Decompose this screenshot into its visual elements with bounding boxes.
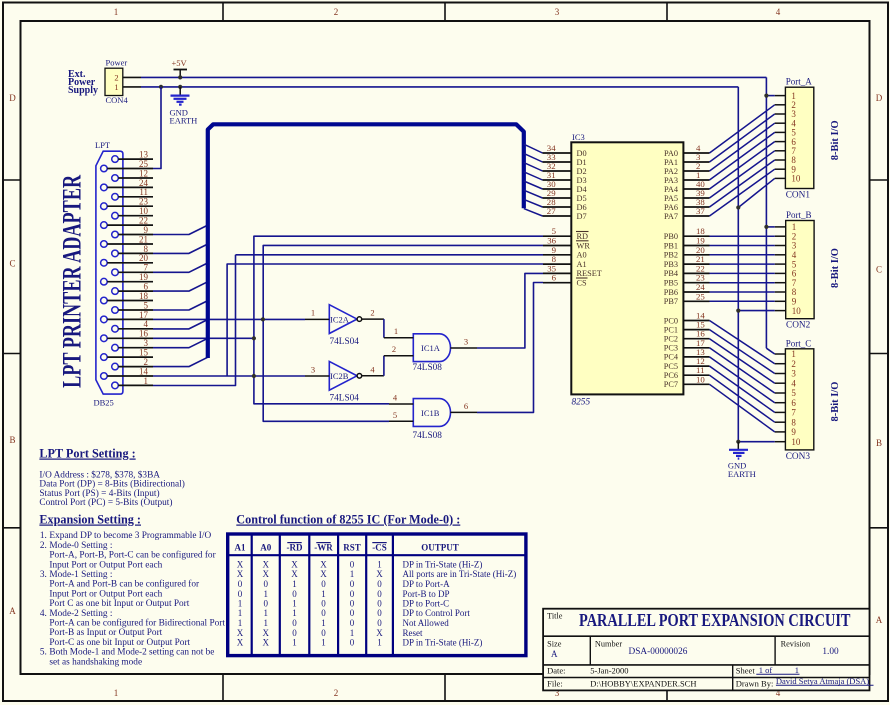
IC3 pin PB0 (18) <box>683 235 709 237</box>
svg-text:0: 0 <box>292 628 297 638</box>
svg-text:1: 1 <box>264 608 269 618</box>
wire PB6 to CON2 pin8 <box>710 291 775 293</box>
DB25 pin 2 <box>112 363 119 370</box>
IC3 pin D5 (29) <box>543 197 572 199</box>
svg-text:1: 1 <box>114 82 118 92</box>
wire bus to IC3 D5 <box>524 190 543 198</box>
svg-text:1: 1 <box>292 599 297 609</box>
wire PA4 to CON1 pin6 <box>710 142 775 189</box>
IC3 pin D4 (30) <box>543 188 572 190</box>
CON3 pin 10 <box>775 441 786 443</box>
wire bus to IC3 D0 <box>524 144 543 153</box>
CON1 pin 7 <box>775 150 786 152</box>
wire DB25 pin 6 to data bus <box>153 282 208 291</box>
svg-text:-WR: -WR <box>314 543 333 553</box>
connector CON2 <box>786 221 814 319</box>
wire DB25 pin16 to RD net <box>153 337 254 339</box>
title block frame <box>543 609 869 691</box>
CON2 pin 4 <box>775 254 786 256</box>
svg-text:27: 27 <box>547 206 556 216</box>
IC3 pin PA6 (38) <box>683 206 709 208</box>
junction CON2 pin1 <box>764 225 768 229</box>
svg-text:Sheet: Sheet <box>736 665 756 675</box>
svg-text:X: X <box>263 560 270 570</box>
svg-text:D:\HOBBY\EXPANDER.SCH: D:\HOBBY\EXPANDER.SCH <box>590 678 696 688</box>
svg-text:PA5: PA5 <box>664 194 678 203</box>
svg-text:X: X <box>237 638 244 648</box>
svg-text:2: 2 <box>392 344 396 354</box>
svg-text:0: 0 <box>321 608 326 618</box>
svg-text:9: 9 <box>791 427 796 437</box>
svg-text:Port-A, Port-B, Port-C can be: Port-A, Port-B, Port-C can be configured… <box>49 550 216 561</box>
svg-text:IC2A: IC2A <box>330 315 350 325</box>
svg-text:PA4: PA4 <box>664 185 679 194</box>
wire DB25 pin 9 to data bus <box>153 225 208 234</box>
IC3 pin PC5 (12) <box>683 365 709 367</box>
svg-text:PA7: PA7 <box>664 212 678 221</box>
svg-text:PB3: PB3 <box>664 260 678 269</box>
junction RD-pin16 <box>252 336 256 340</box>
DB25 pin 19 <box>101 278 108 285</box>
svg-text:7: 7 <box>791 408 796 418</box>
svg-text:X: X <box>376 628 383 638</box>
svg-text:0: 0 <box>264 599 269 609</box>
IC3 pin PB1 (19) <box>683 245 709 247</box>
svg-text:PC5: PC5 <box>664 362 678 371</box>
IC3 pin PA5 (39) <box>683 197 709 199</box>
svg-text:2: 2 <box>370 308 374 318</box>
svg-text:Port-B to DP: Port-B to DP <box>403 589 450 599</box>
svg-text:+5V: +5V <box>172 58 188 68</box>
DB25 pin 11 <box>112 194 119 201</box>
wire DB25 pin 2 to data bus <box>153 357 208 366</box>
svg-text:A1: A1 <box>577 260 587 269</box>
svg-text:74LS04: 74LS04 <box>330 337 360 347</box>
svg-text:9: 9 <box>144 225 149 235</box>
IC3 pin PC6 (11) <box>683 374 709 376</box>
svg-text:1: 1 <box>350 569 355 579</box>
svg-text:IC1B: IC1B <box>421 408 440 418</box>
wire WR net vertical <box>263 245 543 421</box>
DB25 pin 6 <box>112 288 119 295</box>
svg-text:1.00: 1.00 <box>822 647 839 657</box>
svg-text:0: 0 <box>321 628 326 638</box>
DB25 pin 8 <box>112 250 119 257</box>
svg-text:2: 2 <box>334 7 339 17</box>
IC3 pin D6 (28) <box>543 206 572 208</box>
wire IC2A out to IC1A in1 <box>383 319 385 338</box>
CON4 pin 1 stub <box>123 86 141 88</box>
svg-text:A0: A0 <box>577 251 587 260</box>
wire bus to IC3 D1 <box>524 153 543 162</box>
ground GND EARTH top <box>179 87 181 95</box>
IC3 pin WR (36) <box>543 245 571 247</box>
wire PB1 to CON2 pin3 <box>710 245 775 247</box>
svg-text:0: 0 <box>350 638 355 648</box>
svg-text:A: A <box>876 615 883 625</box>
svg-text:X: X <box>320 569 327 579</box>
wire CS from IC1B output <box>477 283 543 413</box>
DB25 pin 18 <box>101 297 108 304</box>
DB25 pin 13 <box>112 156 119 163</box>
DB25 pin 12 <box>112 175 119 182</box>
junction CON3 pin10 GND <box>736 440 740 444</box>
svg-text:0: 0 <box>350 618 355 628</box>
svg-text:3.: 3. <box>40 570 47 580</box>
junction CON1 pin10 GND <box>736 205 740 209</box>
svg-text:8255: 8255 <box>572 398 591 408</box>
DB25 pin 20 <box>101 260 108 267</box>
wire PA2 to CON1 pin4 <box>710 123 775 171</box>
svg-text:D4: D4 <box>577 185 588 194</box>
svg-text:0: 0 <box>350 608 355 618</box>
IC3 pin PA1 (3) <box>683 161 709 163</box>
IC3 pin D0 (34) <box>543 152 572 154</box>
wire PA5 to CON1 pin7 <box>710 151 775 198</box>
CON1 pin 4 <box>775 122 786 124</box>
svg-text:RST: RST <box>343 543 361 553</box>
CON1 pin 9 <box>775 168 786 170</box>
wire A1 net <box>227 264 543 376</box>
svg-text:set as handshaking mode: set as handshaking mode <box>49 657 142 667</box>
svg-text:20: 20 <box>139 253 149 263</box>
CON2 pin 6 <box>775 272 786 274</box>
svg-text:CS: CS <box>577 279 588 288</box>
wire DB25 pin17 to IC2A input (net SELECT) <box>153 318 305 320</box>
svg-text:1: 1 <box>264 589 269 599</box>
svg-text:DSA-00000026: DSA-00000026 <box>629 647 688 657</box>
wire DB25 pin 4 to data bus <box>153 320 208 329</box>
svg-text:Port_A: Port_A <box>786 77 813 87</box>
svg-text:David Setya Atmaja (DSA): David Setya Atmaja (DSA) <box>776 676 869 686</box>
svg-text:PC4: PC4 <box>664 353 679 362</box>
svg-text:2.: 2. <box>40 541 47 551</box>
CON3 pin 7 <box>775 411 786 413</box>
DB25 pin 7 <box>112 269 119 276</box>
svg-text:PA6: PA6 <box>664 203 678 212</box>
svg-text:0: 0 <box>377 579 382 589</box>
IC3 pin PA4 (40) <box>683 188 709 190</box>
svg-text:LPT: LPT <box>95 140 111 150</box>
IC3 pin RESET (35) <box>543 272 571 274</box>
IC3 pin PA0 (4) <box>683 152 709 154</box>
svg-text:4.: 4. <box>40 609 47 619</box>
junction pin25 riser <box>159 85 163 89</box>
svg-text:10: 10 <box>791 437 801 447</box>
svg-text:1: 1 <box>238 599 243 609</box>
IC3 pin PB5 (23) <box>683 282 709 284</box>
svg-text:CON4: CON4 <box>106 95 129 105</box>
svg-text:Date:: Date: <box>547 665 565 675</box>
svg-text:Control Port (PC) = 5-Bits (Ou: Control Port (PC) = 5-Bits (Output) <box>39 497 172 508</box>
svg-text:74LS08: 74LS08 <box>413 363 443 373</box>
svg-text:DP to Port-A: DP to Port-A <box>403 579 451 589</box>
wire CON2 pin10 to GND rail <box>738 310 774 312</box>
junction GND stem <box>178 85 182 89</box>
svg-text:PB4: PB4 <box>664 269 679 278</box>
IC3 pin PC4 (13) <box>683 356 709 358</box>
svg-text:IC3: IC3 <box>572 132 585 142</box>
svg-text:D: D <box>9 93 16 103</box>
DB25 pin 9 <box>112 231 119 238</box>
svg-text:Reset: Reset <box>403 628 423 638</box>
svg-text:1: 1 <box>321 589 326 599</box>
IC2A input pin 1 <box>305 318 329 320</box>
wire IC2B out to IC1A in2 <box>383 356 385 376</box>
svg-text:PA1: PA1 <box>664 158 678 167</box>
CON3 pin 5 <box>775 392 786 394</box>
junction RD-pin14 <box>252 374 256 378</box>
wire +5V to CON3 pin1 <box>766 348 774 354</box>
svg-text:PC6: PC6 <box>664 371 678 380</box>
CON2 pin 9 <box>775 300 786 302</box>
svg-text:LPT PRINTER ADAPTER: LPT PRINTER ADAPTER <box>58 175 87 388</box>
svg-text:Power: Power <box>106 58 128 68</box>
svg-text:8: 8 <box>791 417 796 427</box>
IC3 pin D7 (27) <box>543 215 572 217</box>
wire bus to IC3 D7 <box>524 209 543 216</box>
wire PA1 to CON1 pin3 <box>710 114 775 162</box>
svg-text:PA3: PA3 <box>664 176 678 185</box>
svg-text:0: 0 <box>292 618 297 628</box>
junction CON1 pin1 <box>764 94 768 98</box>
svg-text:Both Mode-1 and Mode-2 setting: Both Mode-1 and Mode-2 setting can not b… <box>49 648 214 658</box>
svg-text:IC2B: IC2B <box>330 371 349 381</box>
IC2B input pin 3 <box>305 375 329 377</box>
svg-text:PARALLEL PORT EXPANSION CIRCUI: PARALLEL PORT EXPANSION CIRCUIT <box>579 610 851 630</box>
inverter IC2B <box>329 361 357 390</box>
svg-text:D7: D7 <box>577 212 587 221</box>
svg-text:DP in Tri-State (Hi-Z): DP in Tri-State (Hi-Z) <box>403 560 483 570</box>
svg-text:X: X <box>376 569 383 579</box>
svg-text:1: 1 <box>114 7 119 17</box>
wire GND rail <box>141 86 738 88</box>
svg-text:RESET: RESET <box>577 269 602 278</box>
svg-text:25: 25 <box>696 291 705 301</box>
svg-text:X: X <box>237 560 244 570</box>
svg-text:1: 1 <box>795 665 799 675</box>
border zone ticks <box>222 3 224 21</box>
svg-text:Port C as one bit Input or Out: Port C as one bit Input or Output Port <box>49 599 189 609</box>
DB25 pin 21 <box>101 241 108 248</box>
svg-text:OUTPUT: OUTPUT <box>421 543 459 553</box>
svg-text:X: X <box>263 569 270 579</box>
wire DB25 pin 7 to data bus <box>153 263 208 272</box>
svg-text:74LS04: 74LS04 <box>330 394 360 404</box>
svg-text:1: 1 <box>292 608 297 618</box>
svg-text:0: 0 <box>377 608 382 618</box>
DB25 pin 17 <box>101 316 108 323</box>
IC3 pin D3 (31) <box>543 179 572 181</box>
power +5V symbol <box>179 70 181 78</box>
wire PC4 to CON3 pin6 <box>710 357 775 403</box>
svg-text:1 of: 1 of <box>759 665 773 675</box>
svg-text:Port-B as Input or Output Port: Port-B as Input or Output Port <box>49 628 162 638</box>
svg-text:DP in Tri-State (Hi-Z): DP in Tri-State (Hi-Z) <box>403 638 483 648</box>
svg-text:6: 6 <box>552 273 557 283</box>
svg-text:Control function of 8255 IC (F: Control function of 8255 IC (For Mode-0)… <box>236 513 460 527</box>
wire DB25 pin 8 to data bus <box>153 244 208 253</box>
svg-text:DB25: DB25 <box>94 398 114 408</box>
svg-text:A0: A0 <box>260 543 271 553</box>
svg-text:5.: 5. <box>40 648 47 658</box>
wire PC3 to CON3 pin5 <box>710 348 775 393</box>
CON3 pin 3 <box>775 373 786 375</box>
junction +5V stem <box>178 75 182 79</box>
CON3 pin 4 <box>775 382 786 384</box>
IC1B input pin 4 <box>389 403 413 405</box>
svg-text:B: B <box>876 438 882 448</box>
CON2 pin 10 <box>775 310 786 312</box>
svg-text:CON2: CON2 <box>786 321 811 331</box>
svg-text:0: 0 <box>264 579 269 589</box>
svg-text:X: X <box>237 628 244 638</box>
svg-text:Port-C as one bit Input or Out: Port-C as one bit Input or Output Port <box>49 638 190 648</box>
connector CON4 <box>105 68 123 95</box>
svg-text:0: 0 <box>350 599 355 609</box>
wire PA6 to CON1 pin8 <box>710 160 775 207</box>
IC3 pin D2 (32) <box>543 170 572 172</box>
svg-text:RD: RD <box>577 232 589 241</box>
svg-text:PC7: PC7 <box>664 380 678 389</box>
svg-text:PB7: PB7 <box>664 297 678 306</box>
wire PB4 to CON2 pin6 <box>710 272 775 274</box>
wire DB25 pin 3 to data bus <box>153 338 208 347</box>
svg-text:Mode-2 Setting :: Mode-2 Setting : <box>49 609 112 619</box>
svg-text:Not Allowed: Not Allowed <box>403 618 450 628</box>
wire CON1 pin10 to GND rail <box>738 178 774 207</box>
svg-text:X: X <box>320 560 327 570</box>
DB25 pin 1 <box>112 382 119 389</box>
DB25 pin 22 <box>101 222 108 229</box>
wire PC5 to CON3 pin7 <box>710 366 775 412</box>
IC3 pin D1 (33) <box>543 161 572 163</box>
wire bus to IC3 D6 <box>524 199 543 207</box>
svg-text:All ports are in Tri-State (Hi: All ports are in Tri-State (Hi-Z) <box>403 569 517 579</box>
CON1 pin 10 <box>775 177 786 179</box>
svg-text:Expansion Setting :: Expansion Setting : <box>39 513 141 527</box>
svg-text:11: 11 <box>139 187 148 197</box>
IC2A output pin 2 <box>362 318 384 320</box>
svg-text:CON1: CON1 <box>786 191 811 201</box>
IC3 pin A1 (8) <box>543 263 571 265</box>
connector CON3 <box>785 349 813 450</box>
wire PC0 to CON3 pin2 <box>710 321 775 364</box>
svg-text:4: 4 <box>791 378 796 388</box>
svg-text:D6: D6 <box>577 203 587 212</box>
IC3 pin PB6 (24) <box>683 291 709 293</box>
wire DB25 pin25 to GND rail <box>153 87 161 169</box>
IC3 pin CS (6) <box>543 282 571 284</box>
svg-text:4: 4 <box>776 7 781 17</box>
svg-text:Number: Number <box>595 639 622 648</box>
svg-text:4: 4 <box>144 319 149 329</box>
wire PA3 to CON1 pin5 <box>710 132 775 180</box>
svg-text:Port_C: Port_C <box>786 338 812 348</box>
svg-text:Mode-1 Setting :: Mode-1 Setting : <box>49 570 112 580</box>
svg-text:Input Port or Output Port each: Input Port or Output Port each <box>49 589 162 599</box>
wire bus to IC3 D3 <box>524 172 543 180</box>
DB25 pin 3 <box>112 344 119 351</box>
svg-text:WR: WR <box>577 241 591 250</box>
svg-text:3: 3 <box>464 337 468 347</box>
svg-text:18: 18 <box>139 291 149 301</box>
svg-text:PC2: PC2 <box>664 335 678 344</box>
IC3 pin PB2 (20) <box>683 254 709 256</box>
svg-text:2: 2 <box>334 688 339 698</box>
svg-text:1: 1 <box>144 376 149 386</box>
svg-text:1: 1 <box>321 638 326 648</box>
DB25 pin 4 <box>112 326 119 333</box>
svg-text:5: 5 <box>791 388 796 398</box>
bus data (thick) <box>208 124 524 358</box>
CON2 pin 3 <box>775 245 786 247</box>
svg-text:X: X <box>291 569 298 579</box>
svg-text:Expand DP to become 3 Programm: Expand DP to become 3 Programmable I/O <box>49 531 211 541</box>
IC3 pin PB7 (25) <box>683 300 709 302</box>
CON1 pin 8 <box>775 159 786 161</box>
svg-text:D5: D5 <box>577 194 587 203</box>
DB25 pin 14 <box>101 373 108 380</box>
connector DB25 shell <box>96 151 123 394</box>
IC3 pin PC2 (16) <box>683 338 709 340</box>
svg-text:PC3: PC3 <box>664 344 678 353</box>
svg-text:1: 1 <box>114 688 119 698</box>
IC3 pin PC3 (17) <box>683 347 709 349</box>
wire PB3 to CON2 pin5 <box>710 263 775 265</box>
wire PA0 to CON1 pin2 <box>710 105 775 153</box>
CON1 pin 1 <box>775 95 786 97</box>
DB25 pin 10 <box>112 212 119 219</box>
svg-text:X: X <box>263 628 270 638</box>
DB25 pin 16 <box>101 335 108 342</box>
DB25 pin 15 <box>101 354 108 361</box>
svg-text:10: 10 <box>696 374 705 384</box>
junction CON2 pin10 GND <box>736 309 740 313</box>
svg-text:D1: D1 <box>577 158 587 167</box>
IC1B input pin 5 <box>389 420 413 422</box>
IC1A input pin 1 <box>384 337 413 339</box>
svg-text:PB6: PB6 <box>664 288 678 297</box>
DB25 pin 5 <box>112 307 119 314</box>
CON1 pin 3 <box>775 113 786 115</box>
svg-text:X: X <box>263 638 270 648</box>
svg-text:8-Bit I/O: 8-Bit I/O <box>830 248 841 288</box>
svg-text:C: C <box>9 259 15 269</box>
wire PB7 to CON2 pin9 <box>710 300 775 302</box>
CON3 pin 6 <box>775 402 786 404</box>
svg-text:0: 0 <box>321 599 326 609</box>
wire RD net vertical <box>254 236 543 404</box>
svg-text:Drawn By:: Drawn By: <box>736 678 774 688</box>
svg-text:X: X <box>237 569 244 579</box>
CON2 pin 7 <box>775 282 786 284</box>
IC1A output pin 3 <box>450 347 477 349</box>
DB25 pin 23 <box>101 203 108 210</box>
svg-text:0: 0 <box>292 589 297 599</box>
DB25 pin 24 <box>101 184 108 191</box>
svg-text:1: 1 <box>321 618 326 628</box>
wire A0 net <box>236 254 544 256</box>
svg-text:1: 1 <box>264 618 269 628</box>
svg-text:1: 1 <box>377 560 382 570</box>
wire CON3 pin10 to GND <box>738 441 774 443</box>
wire PC6 to CON3 pin8 <box>710 375 775 422</box>
svg-text:37: 37 <box>696 206 705 216</box>
svg-text:Supply: Supply <box>68 85 98 96</box>
wire +5V to CON2 pin1 <box>766 226 774 228</box>
svg-text:LPT Port Setting :: LPT Port Setting : <box>39 447 135 461</box>
